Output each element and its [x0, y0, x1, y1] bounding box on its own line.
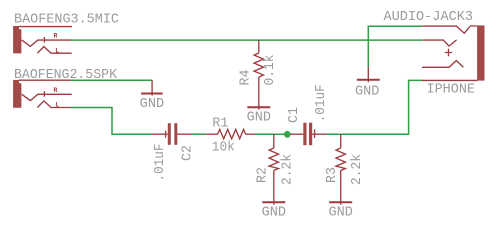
svg-text:R4: R4: [238, 70, 253, 86]
wire: audio-jack pin1 to gnd: [368, 26, 422, 66]
svg-text:R2: R2: [255, 167, 270, 183]
svg-text:GND: GND: [140, 97, 164, 112]
svg-text:GND: GND: [355, 85, 379, 100]
svg-text:GND: GND: [247, 110, 271, 125]
wire: R1 to C1/junction: [255, 133, 290, 135]
svg-text:C1: C1: [287, 107, 302, 123]
connector jack BAOFENG3.5MIC: [13, 26, 72, 53]
svg-text:2.2k: 2.2k: [281, 154, 296, 185]
svg-text:L: L: [55, 102, 59, 109]
wire: spk L down to bottom net: [71, 108, 152, 135]
ground GND (spk): [141, 80, 163, 95]
svg-text:R: R: [54, 87, 58, 94]
svg-text:0.1k: 0.1k: [263, 55, 278, 86]
resistor R4: [254, 40, 263, 98]
ground GND (R4): [247, 98, 270, 110]
svg-text:2.2k: 2.2k: [350, 154, 365, 185]
capacitor C1: [290, 123, 327, 146]
resistor R1: [206, 129, 255, 138]
svg-text:.01uF: .01uF: [153, 144, 168, 182]
resistor R2: [269, 134, 278, 193]
svg-text:L: L: [55, 47, 59, 54]
svg-text:R: R: [54, 32, 58, 39]
wire: mic R to audio-jack pin2: [71, 39, 422, 41]
connector AUDIO-JACK3 (iphone TRRS): [422, 25, 485, 80]
junction node: [284, 131, 291, 138]
capacitor C2: [152, 123, 192, 145]
svg-text:BAOFENG3.5MIC: BAOFENG3.5MIC: [14, 13, 119, 28]
ground GND (R3): [329, 193, 352, 205]
svg-text:C2: C2: [181, 145, 196, 161]
svg-text:10k: 10k: [212, 140, 235, 155]
wire: C1 to iphone mic pin: [327, 80, 422, 134]
svg-text:AUDIO-JACK3: AUDIO-JACK3: [384, 10, 474, 25]
ground GND (R2): [262, 193, 285, 205]
svg-text:IPHONE: IPHONE: [427, 83, 476, 98]
ground GND (near audio jack): [357, 67, 380, 83]
svg-text:R3: R3: [325, 167, 340, 183]
svg-text:GND: GND: [262, 205, 286, 220]
svg-text:.01uF: .01uF: [314, 84, 329, 122]
wire: spk sleeve to gnd: [71, 79, 152, 81]
connector jack BAOFENG2.5SPK: [13, 80, 72, 108]
wire: C2 to R1: [192, 133, 206, 135]
svg-text:R1: R1: [212, 116, 228, 131]
svg-text:GND: GND: [329, 205, 353, 220]
resistor R3: [336, 134, 345, 193]
